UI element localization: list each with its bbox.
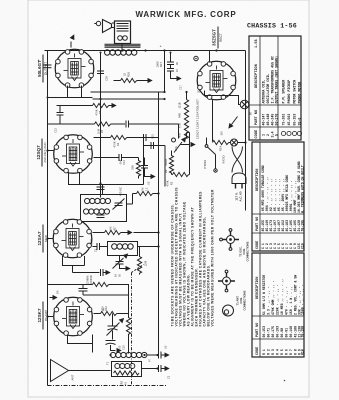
capacitor C2 ground xyxy=(159,365,170,372)
node dot xyxy=(47,97,49,99)
label 12SA7 MOD xyxy=(37,231,48,245)
antenna xyxy=(51,360,111,382)
wire B+ top rail xyxy=(45,50,246,52)
wire grid row y294.5 xyxy=(83,294,129,296)
value labels sprinkle xyxy=(54,85,224,380)
resistor R7 row xyxy=(93,230,159,235)
output transformer T5 xyxy=(112,21,131,51)
antenna coil primary xyxy=(111,352,158,357)
capacitor C5 xyxy=(93,243,108,250)
capacitor C6 ground xyxy=(113,251,131,271)
filament labels right xyxy=(196,99,200,139)
tube U4 35Z5GT rectifier xyxy=(197,61,236,100)
wire trunk x245 xyxy=(245,51,247,211)
label 50L6GT OUTPUT xyxy=(37,60,48,77)
capacitor C19 electrolytic xyxy=(93,67,109,81)
switch arm arrow xyxy=(226,117,237,131)
wire coupling vertical x143 xyxy=(143,141,145,185)
AC plug cord xyxy=(232,147,243,173)
resistor R16 xyxy=(114,72,153,84)
filament labels left xyxy=(178,102,182,138)
capacitor table xyxy=(252,142,305,251)
wire top arrow plate B+ xyxy=(70,42,72,48)
volume pot R9 xyxy=(170,135,196,174)
gang dash diagonal xyxy=(132,265,144,273)
ground arrow left of 12SK7 xyxy=(50,295,58,300)
AC plug xyxy=(232,173,246,189)
resistor R11 bottom of pot xyxy=(166,172,190,186)
pilot lamp xyxy=(213,96,253,115)
wire rect filament to lamp xyxy=(205,91,239,105)
wire 12SA7 left xyxy=(48,238,54,240)
wire rect top pin xyxy=(209,51,211,63)
wire pot right vertical xyxy=(189,133,191,175)
resistor R8 row xyxy=(94,134,159,141)
label 12SQ7 xyxy=(36,142,47,163)
capacitor C17 C18 electrolytics xyxy=(167,52,182,82)
wire T2 right xyxy=(138,247,140,256)
T2 connection diagram xyxy=(220,229,250,262)
tube U2 12SQ7 xyxy=(54,135,93,174)
wire tube bottom row xyxy=(48,97,93,99)
label 117V AC xyxy=(235,191,243,202)
wire 50L6GT cathode stubs xyxy=(68,86,82,98)
capacitor C20 electrolytic on trunk xyxy=(38,58,52,68)
resistor R3 vertical xyxy=(126,314,130,354)
filament resistor string xyxy=(184,92,188,139)
wire trunk x164 xyxy=(164,51,166,92)
label resistor R17 xyxy=(156,61,164,67)
wire osc to ant coil vertical xyxy=(140,247,159,353)
label 35Z5GT RECT xyxy=(212,29,224,46)
T1 connection diagram xyxy=(218,270,247,316)
capacitor C7 ground row xyxy=(73,269,111,276)
resistor R2 row xyxy=(94,311,129,315)
wire mid rail y91 xyxy=(91,91,165,93)
wire 12SQ7 left xyxy=(48,150,54,152)
resistor R6 row xyxy=(57,103,117,108)
wire rect cathode drop xyxy=(212,109,214,142)
wire pot left trunk xyxy=(144,146,166,187)
label R12 xyxy=(101,306,109,311)
wire trunk x100 xyxy=(100,53,102,198)
notes text block xyxy=(171,187,215,327)
wire T1 right xyxy=(142,368,158,370)
capacitor C8 xyxy=(79,275,94,295)
capacitor C16b on y145 xyxy=(151,142,154,149)
tube U1 12SK7 xyxy=(54,297,93,336)
resistor R row y193 xyxy=(127,191,159,204)
tube U5 50L6GT xyxy=(55,49,94,88)
label 12SK7 RF AMP xyxy=(37,308,48,322)
chassis dash line bottom xyxy=(48,385,167,387)
capacitor C15 hatched xyxy=(141,158,156,180)
speaker xyxy=(94,20,111,33)
capacitor C13 xyxy=(57,106,64,125)
trimmer capacitor C11 xyxy=(107,314,127,340)
resistor table xyxy=(252,253,305,357)
oscillator coil T2 box xyxy=(108,242,138,256)
wire trunk x158 xyxy=(158,92,160,247)
label VOL 500M xyxy=(164,145,178,173)
antenna coil T1 box xyxy=(112,362,142,377)
filter choke coil on rail xyxy=(105,44,141,55)
gang dash line vertical xyxy=(131,273,133,386)
resistor R5 row xyxy=(48,121,179,139)
resistor R10 row xyxy=(48,282,129,313)
IF transformer T4 box xyxy=(81,187,127,222)
node dots xyxy=(46,49,246,369)
resistor R4 vertical xyxy=(137,256,147,275)
wire left trunk vertical xyxy=(47,51,49,386)
resistor vertical R xyxy=(136,158,140,179)
switch S2 xyxy=(204,138,226,173)
capacitor C14 xyxy=(94,154,139,161)
trimmer capacitor C12 xyxy=(106,341,122,354)
label R1 T1 xyxy=(106,361,128,386)
wire mid rail y98 xyxy=(93,98,165,100)
wire 12SK7 left xyxy=(48,316,54,318)
junction connector xyxy=(194,56,198,60)
capacitor C1 ground xyxy=(159,352,170,359)
parts table (coils speaker) xyxy=(249,36,302,140)
wire 12SA7 bottom stubs xyxy=(63,256,85,273)
tube U3 12SA7 xyxy=(53,219,92,258)
wire 12SK7 bottom stubs xyxy=(68,335,93,353)
wire 12SQ7 bottom stubs xyxy=(69,172,144,195)
resistor R14 xyxy=(213,139,246,151)
